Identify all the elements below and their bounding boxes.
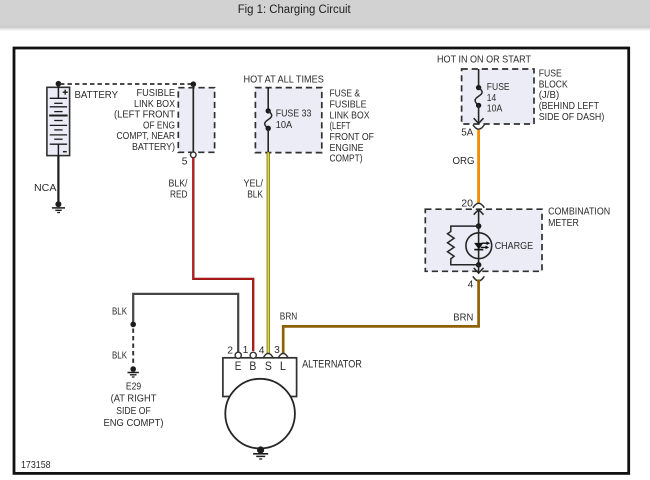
fuse &amp; fusible link box (FUSE 33, dashed) xyxy=(255,88,321,153)
ground E29 xyxy=(128,373,139,378)
node at E29 ground xyxy=(130,366,136,372)
svg-text:HOT IN ON OR START: HOT IN ON OR START xyxy=(437,54,532,65)
connector cup 5A below fuse block xyxy=(473,125,484,130)
wire ORG (orange) xyxy=(477,130,480,204)
pin 3 connector cap (L) xyxy=(278,353,289,358)
ground G1 (battery) xyxy=(52,201,65,212)
svg-text:FUSE &FUSIBLELINK BOX(LEFTFRON: FUSE &FUSIBLELINK BOX(LEFTFRONT OFENGINE… xyxy=(330,89,375,165)
svg-text:L: L xyxy=(280,359,286,373)
svg-text:HOT AT ALL TIMES: HOT AT ALL TIMES xyxy=(244,75,324,86)
svg-text:E29(AT RIGHTSIDE OFENG COMPT): E29(AT RIGHTSIDE OFENG COMPT) xyxy=(104,381,164,429)
connector circle, pin 5 of fusible link box xyxy=(191,152,197,158)
arrow out of fuse block bottom xyxy=(474,105,484,123)
svg-text:BLK: BLK xyxy=(112,306,127,317)
connector cap pin 20 of combination meter xyxy=(473,203,484,208)
dashed BLK wire section xyxy=(132,329,134,365)
svg-text:CHARGE: CHARGE xyxy=(495,241,534,252)
svg-text:173158: 173158 xyxy=(21,460,51,471)
svg-text:ALTERNATOR: ALTERNATOR xyxy=(302,359,362,371)
svg-text:ORG: ORG xyxy=(453,156,475,167)
node dot bottom (meter) xyxy=(476,262,482,268)
svg-text:B: B xyxy=(249,359,256,373)
fuse block J/B box (FUSE 14, dashed) xyxy=(462,69,534,124)
wire BRN (brown) from meter pin 4 to alternator L xyxy=(283,279,478,354)
dashed wire battery to fusible link box xyxy=(60,83,191,85)
node at fusible link box top xyxy=(191,81,197,87)
battery negative wire xyxy=(57,156,59,203)
fusible link box (dashed, lavender) xyxy=(178,88,214,153)
wire through fusible link box xyxy=(192,84,194,152)
svg-text:4: 4 xyxy=(468,280,474,291)
svg-text:FUSEBLOCK(J/B)(BEHIND LEFTSIDE: FUSEBLOCK(J/B)(BEHIND LEFTSIDE OF DASH) xyxy=(539,68,605,122)
ground inside alternator xyxy=(253,446,268,459)
svg-text:E: E xyxy=(235,359,242,373)
svg-text:YEL/BLK: YEL/BLK xyxy=(244,178,264,200)
svg-text:Fig 1: Charging Circuit: Fig 1: Charging Circuit xyxy=(238,4,352,16)
svg-text:5A: 5A xyxy=(461,128,473,139)
wire BLK/RED (red) from fusible link to alternator B xyxy=(193,158,253,351)
svg-text:FUSIBLELINK BOX(LEFT FRONTOF E: FUSIBLELINK BOX(LEFT FRONTOF ENGCOMPT, N… xyxy=(114,88,176,153)
pin 1 connector circle (B) xyxy=(250,352,256,358)
svg-text:2: 2 xyxy=(227,345,233,356)
svg-text:COMBINATIONMETER: COMBINATIONMETER xyxy=(548,207,610,229)
svg-text:5: 5 xyxy=(182,157,188,168)
svg-text:20: 20 xyxy=(461,198,473,209)
svg-text:3: 3 xyxy=(274,345,280,356)
battery positive node (junction dot) xyxy=(56,81,62,88)
wire BLK (gray) from alternator E to E29 splice xyxy=(133,294,238,352)
svg-text:4: 4 xyxy=(259,345,265,356)
header bar xyxy=(0,0,650,32)
alternator terminal box xyxy=(223,358,297,397)
svg-text:NCA: NCA xyxy=(34,183,57,194)
pin 4 connector cap (S) xyxy=(263,353,274,358)
svg-text:BLK: BLK xyxy=(112,351,127,362)
fuse F14 symbol xyxy=(475,69,482,108)
wire YEL/BLK (yellow) from fuse 33 to alternator S xyxy=(267,152,270,354)
svg-text:BRN: BRN xyxy=(453,313,473,324)
svg-text:BLK/RED: BLK/RED xyxy=(169,178,188,200)
arrow into combination meter top xyxy=(474,210,484,227)
splice node on BLK wire xyxy=(130,322,136,328)
battery BT1 xyxy=(47,87,70,155)
svg-text:BRN: BRN xyxy=(280,312,298,323)
svg-text:S: S xyxy=(265,359,272,373)
connector cup pin 4 of combination meter xyxy=(473,276,484,281)
charge indicator lamp (LED in circle) xyxy=(466,233,492,259)
combination meter box (dashed) xyxy=(425,209,542,271)
meter internal wire xyxy=(478,226,480,265)
svg-text:BATTERY: BATTERY xyxy=(75,90,119,101)
pin 2 connector circle (E) xyxy=(235,352,241,358)
arrow out of combination meter bottom xyxy=(474,265,484,273)
fuse F33 symbol xyxy=(265,88,272,153)
resistor R1 (meter shunt) xyxy=(448,226,479,265)
node dot top (meter) xyxy=(476,223,482,229)
svg-text:1: 1 xyxy=(243,345,249,356)
alternator body circle xyxy=(225,379,295,449)
